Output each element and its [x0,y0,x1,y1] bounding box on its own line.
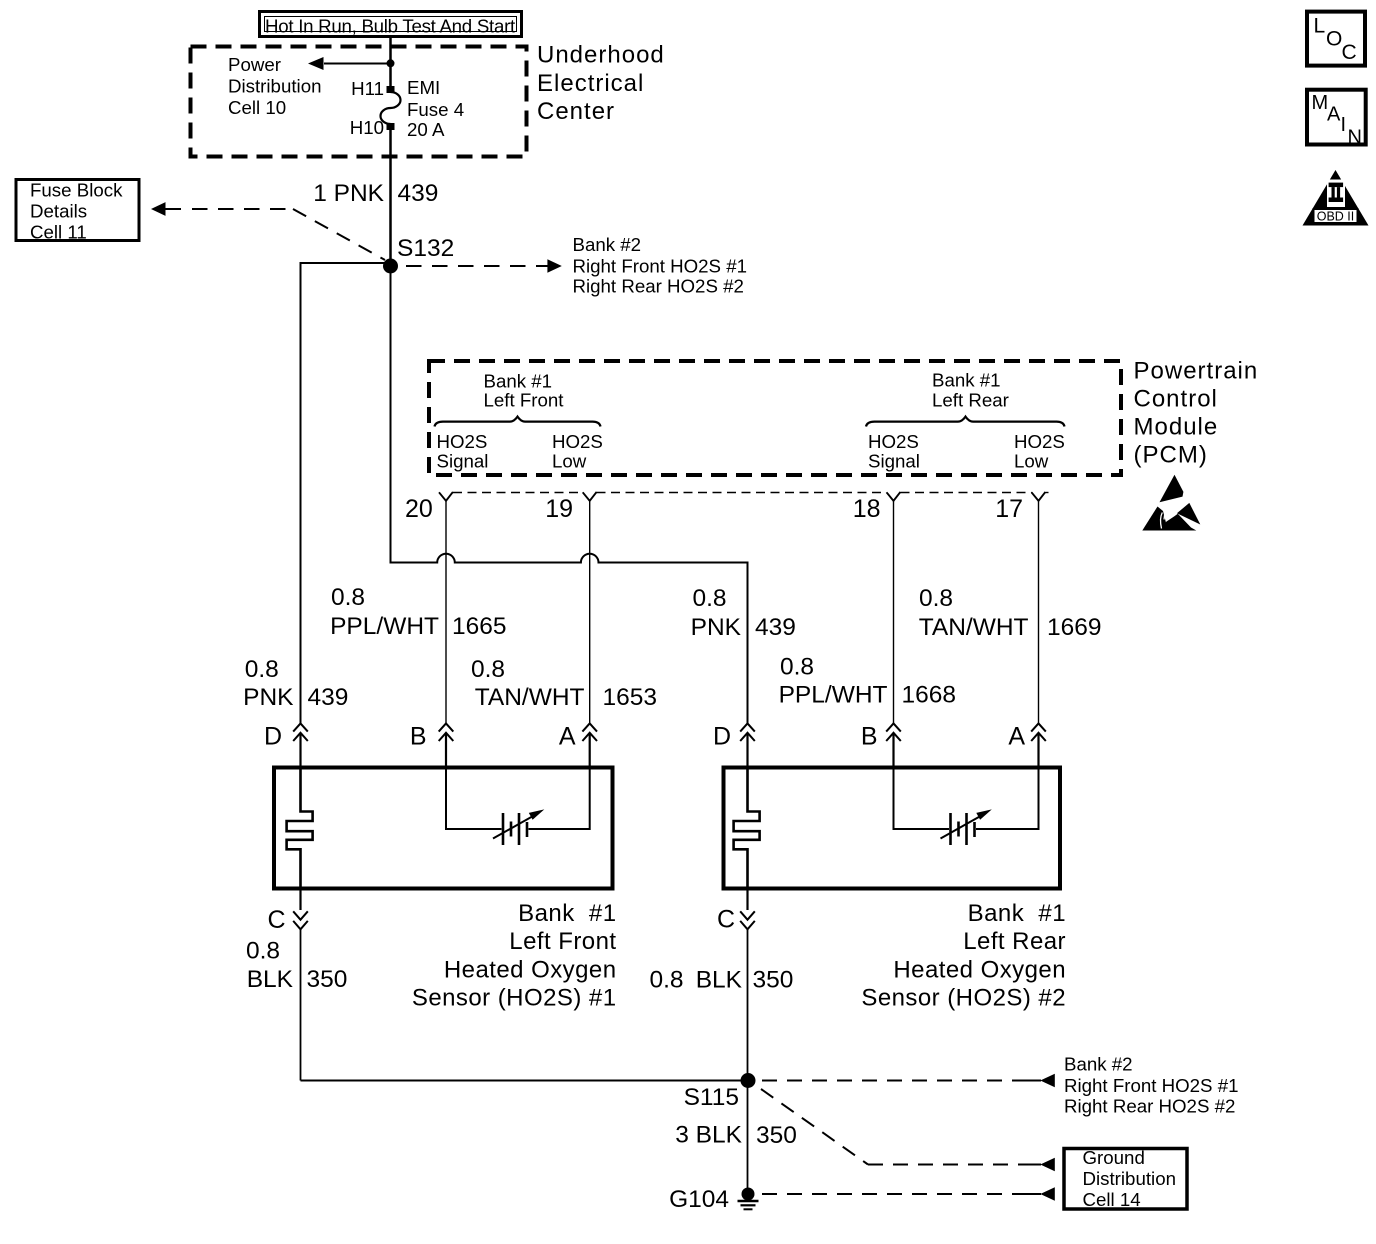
svg-text:17: 17 [995,495,1023,523]
wire HO2S 2 pin B to sensing element [894,768,950,830]
wire label 0.8 PNK 439 (HO2S 2 pin D) [691,585,796,641]
wire label 0.8 TAN/WHT 1669 [919,585,1102,641]
svg-text:Heated Oxygen: Heated Oxygen [893,956,1066,983]
svg-text:M: M [1312,92,1329,114]
svg-text:BLK: BLK [696,967,743,994]
svg-text:350: 350 [307,966,348,993]
connector pin 18 [887,492,901,501]
svg-text:Details: Details [30,201,87,222]
wire label 3 BLK 350 [675,1122,797,1150]
svg-text:Powertrain: Powertrain [1134,358,1259,385]
svg-text:Fuse 4: Fuse 4 [407,99,464,120]
connector chevrons HO2S 2 pin A [1031,723,1046,741]
LOC icon [1307,12,1365,66]
svg-text:BLK: BLK [247,966,294,993]
svg-text:0.8: 0.8 [919,585,953,612]
svg-text:C: C [1342,41,1357,64]
svg-text:18: 18 [853,495,881,523]
svg-text:D: D [713,723,731,751]
svg-text:Electrical: Electrical [537,70,644,97]
svg-text:0.8: 0.8 [780,654,814,681]
HO2S 2 sensor box [724,768,1061,889]
svg-text:H10: H10 [350,117,384,138]
svg-text:HO2S: HO2S [868,431,919,452]
svg-text:Bank #1: Bank #1 [518,900,616,927]
svg-text:Bank #2: Bank #2 [573,234,642,255]
svg-text:0.8: 0.8 [246,938,280,965]
PCM connector dashed line [453,492,1049,494]
label HO2S Signal (pin 18) [868,431,920,472]
svg-text:N: N [1348,127,1362,149]
svg-text:A: A [1327,104,1341,126]
svg-text:19: 19 [545,495,573,523]
svg-text:Distribution: Distribution [228,76,321,97]
svg-text:Hot In Run, Bulb Test And Star: Hot In Run, Bulb Test And Start [265,16,516,37]
svg-text:350: 350 [753,967,794,994]
svg-text:439: 439 [755,614,796,641]
svg-text:C: C [267,906,285,934]
svg-text:439: 439 [308,684,349,711]
connector chevrons HO2S 1 pin C [293,911,308,929]
node S132 [383,259,398,274]
dashed reference line from S115 to Ground Distribution [761,1089,1055,1171]
svg-text:0.8: 0.8 [693,585,727,612]
svg-text:(PCM): (PCM) [1134,442,1208,469]
dashed reference arrow from S132 to Bank 2 sensors [406,259,562,273]
label Bank 1 Left Rear (PCM) [932,370,1009,411]
Fuse Block Details Cell 11 box [16,180,139,243]
svg-text:Right Rear HO2S #2: Right Rear HO2S #2 [1064,1096,1235,1117]
wire HO2S 1 pin B to sensing element [446,768,502,830]
svg-text:439: 439 [398,180,439,207]
svg-text:350: 350 [756,1122,797,1149]
label Bank 1 Left Front Heated Oxygen Sensor 1 [412,900,617,1012]
svg-text:HO2S: HO2S [437,431,488,452]
svg-text:20 A: 20 A [407,119,445,140]
svg-text:Cell 14: Cell 14 [1083,1189,1141,1210]
dashed reference arrow from S115 to Bank 2 sensors [762,1074,1055,1088]
svg-text:H11: H11 [351,78,384,99]
svg-text:G104: G104 [669,1186,729,1213]
svg-text:Low: Low [1014,451,1049,472]
svg-text:Fuse Block: Fuse Block [30,180,123,201]
wire label 1 PNK 439 [313,180,438,207]
dashed reference line from G104 to Ground Distribution [762,1187,1055,1201]
wire sensing element to HO2S 2 pin A [976,768,1039,830]
fuse EMI Fuse 4 20 A (S-curve element) [381,92,401,124]
svg-text:Distribution: Distribution [1083,1168,1176,1189]
svg-text:L: L [1314,15,1326,38]
svg-text:PNK: PNK [243,684,294,711]
svg-text:TAN/WHT: TAN/WHT [919,614,1029,641]
svg-text:Signal: Signal [437,451,489,472]
svg-text:S132: S132 [397,235,454,262]
svg-text:EMI: EMI [407,77,440,98]
svg-text:HO2S: HO2S [1014,431,1065,452]
svg-text:1665: 1665 [452,613,507,640]
svg-text:1668: 1668 [902,682,957,709]
wire from fuse H10 down to node S132 [389,124,392,266]
wire left branch from S132 down to HO2S 1 pin D [301,263,391,723]
connector pin 19 [583,492,597,501]
svg-text:Center: Center [537,98,615,125]
Underhood Electrical Center dashed box [191,47,527,157]
brace left group [435,417,601,427]
wire HO2S 2 pin C down to G104 [746,889,748,911]
svg-text:PPL/WHT: PPL/WHT [779,682,888,709]
svg-text:A: A [559,723,576,751]
wire PCM pin 18 to HO2S 2 pin B [893,500,895,723]
wire label 0.8 PNK 439 (HO2S 1 pin D) [243,656,348,711]
svg-text:Low: Low [552,451,587,472]
svg-text:Bank #1: Bank #1 [932,370,1001,391]
label Powertrain Control Module (PCM) [1134,358,1259,469]
svg-text:3 BLK: 3 BLK [675,1122,742,1149]
connector chevrons HO2S 1 pin A [582,723,597,741]
svg-text:PNK: PNK [691,614,742,641]
ground G104 [738,1188,759,1210]
svg-text:Control: Control [1134,386,1218,413]
ESD sensitive device symbol [1142,475,1200,531]
label HO2S Low (pin 17) [1014,431,1065,472]
svg-text:Left Front: Left Front [484,390,565,411]
svg-text:B: B [861,723,878,751]
svg-text:S115: S115 [684,1084,739,1111]
connector chevrons HO2S 2 pin D [740,723,755,741]
svg-text:TAN/WHT: TAN/WHT [475,684,585,711]
wire label 0.8 PPL/WHT 1665 [330,584,506,640]
svg-text:Right Front HO2S #1: Right Front HO2S #1 [573,256,748,277]
wire sensing element to HO2S 1 pin A [529,768,590,830]
svg-text:1669: 1669 [1047,614,1102,641]
wire label 0.8 BLK 350 (HO2S 1) [246,938,347,994]
svg-text:Left Front: Left Front [509,928,616,955]
svg-text:A: A [1008,723,1025,751]
svg-text:Left Rear: Left Rear [963,928,1066,955]
svg-text:0.8: 0.8 [245,656,279,683]
wire PCM pin 20 to HO2S 1 pin B [445,500,447,723]
svg-text:1 PNK: 1 PNK [313,180,384,207]
connector chevrons HO2S 1 pin D [293,723,308,741]
dashed reference line from S132 to Fuse Block Details [151,202,385,260]
svg-text:0.8: 0.8 [650,967,684,994]
feed label box "Hot In Run, Bulb Test And Start" [260,12,522,37]
connector pin 20 [439,492,453,501]
wire label 0.8 BLK 350 (HO2S 2) [650,967,794,994]
wire PCM pin 17 to HO2S 2 pin A [1038,500,1040,723]
svg-text:I: I [1341,114,1347,136]
svg-text:Right Rear HO2S #2: Right Rear HO2S #2 [573,276,744,297]
svg-text:Power: Power [228,54,281,75]
wire HO2S 1 pin C to node S115 [301,1080,749,1082]
label Bank 1 Left Front (PCM) [484,371,565,411]
svg-text:D: D [264,723,282,751]
svg-text:Cell 10: Cell 10 [228,97,286,118]
MAIN icon [1307,90,1366,149]
connector chevrons HO2S 1 pin B [439,723,454,741]
svg-text:Signal: Signal [868,451,920,472]
svg-text:Cell 11: Cell 11 [30,222,87,243]
svg-text:20: 20 [405,495,433,523]
svg-text:Bank #1: Bank #1 [484,371,553,392]
Powertrain Control Module dashed box [429,361,1121,475]
svg-text:Heated Oxygen: Heated Oxygen [444,956,617,983]
HO2S 1 sensor box [274,768,613,889]
wire label 0.8 TAN/WHT 1653 [471,656,657,711]
svg-text:Sensor (HO2S) #2: Sensor (HO2S) #2 [861,985,1066,1012]
brace right group [866,417,1065,427]
svg-text:B: B [410,723,427,751]
terminal H11 [387,86,395,93]
sensing element HO2S 2 (variable cell with arrow) [941,809,992,845]
svg-text:HO2S: HO2S [552,431,603,452]
svg-text:Right Front HO2S #1: Right Front HO2S #1 [1064,1075,1239,1096]
Ground Distribution Cell 14 box [1064,1147,1187,1210]
connector chevrons HO2S 2 pin B [886,723,901,741]
wire from Hot box down to fuse terminal H11 [389,37,392,88]
wire label 0.8 PPL/WHT 1668 [779,654,956,709]
svg-text:1653: 1653 [603,684,658,711]
heater element HO2S 2 [734,768,760,889]
svg-text:Bank #1: Bank #1 [968,900,1066,927]
arrow to Power Distribution [308,57,391,70]
junction dot on feed wire [387,59,395,67]
svg-text:C: C [717,906,735,934]
label Underhood Electrical Center [537,42,665,126]
svg-text:Module: Module [1134,414,1219,441]
note Bank 2 Right Front HO2S 1 Right Rear HO2S 2 (bottom) [1064,1054,1239,1117]
OBD II icon [1303,170,1369,226]
connector pin 17 [1032,492,1046,501]
svg-text:O: O [1326,28,1342,51]
wire HO2S 1 pin C down [299,889,301,911]
node S115 [741,1073,756,1088]
label Power Distribution Cell 10 [228,54,321,118]
label HO2S Low (pin 19) [552,431,603,472]
svg-text:Sensor (HO2S) #1: Sensor (HO2S) #1 [412,985,617,1012]
wire PCM pin 19 to HO2S 1 pin A [589,500,591,723]
svg-text:OBD II: OBD II [1317,210,1355,224]
svg-text:0.8: 0.8 [331,584,365,611]
svg-text:PPL/WHT: PPL/WHT [330,613,439,640]
terminal H10 [387,123,395,130]
svg-text:0.8: 0.8 [471,656,505,683]
note Bank 2 Right Front HO2S 1 Right Rear HO2S 2 [573,234,748,297]
svg-text:Ground: Ground [1083,1147,1145,1168]
value label EMI Fuse 4 20 A [407,77,464,140]
wire from S132 down and right to HO2S 2 pin D (with hops) [391,266,748,723]
heater element HO2S 1 [287,768,313,889]
svg-text:Bank #2: Bank #2 [1064,1054,1133,1075]
sensing element HO2S 1 (variable cell with arrow) [493,809,544,845]
svg-text:Left Rear: Left Rear [932,390,1009,411]
label Bank 1 Left Rear Heated Oxygen Sensor 2 [861,900,1066,1012]
svg-text:Underhood: Underhood [537,42,665,69]
label HO2S Signal (pin 20) [437,431,489,472]
connector chevrons HO2S 2 pin C [740,911,755,929]
